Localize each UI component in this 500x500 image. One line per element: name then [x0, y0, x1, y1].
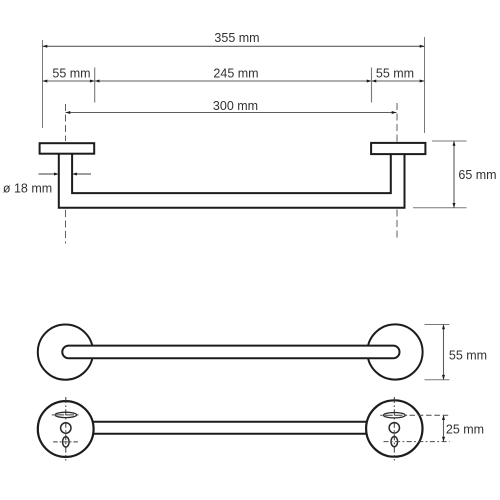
centerline right post (top view, below bar): [396, 210, 398, 241]
diameter arrow left (18 mm): [39, 173, 59, 176]
wall rosette right (front view): [367, 324, 422, 379]
wall rosette right (bottom view): [366, 400, 422, 456]
slot centerline right: [380, 414, 408, 416]
dimension line chain 55/245/55: [43, 80, 425, 83]
centerline left post (top view, above plate): [65, 104, 67, 141]
wall plate left (top view): [40, 143, 95, 154]
rail inner outline (top view): [72, 155, 391, 194]
screw oval left: [63, 437, 70, 447]
svg-text:65 mm: 65 mm: [458, 168, 496, 182]
slot lens right: [384, 413, 406, 418]
wall plate right (top view): [371, 143, 425, 154]
svg-text:245 mm: 245 mm: [213, 67, 258, 81]
svg-text:300 mm: 300 mm: [213, 99, 258, 113]
dashed extension from slot (25 mm): [410, 414, 450, 416]
slot lens left: [55, 412, 77, 417]
svg-text:ø 18 mm: ø 18 mm: [3, 182, 52, 196]
wall rosette left (front view): [38, 325, 93, 380]
bar (front view): [62, 346, 399, 359]
extension line left (overall width): [42, 40, 44, 128]
extension line bottom (65 mm): [413, 207, 467, 209]
bar top edge (bottom view): [93, 421, 367, 423]
dimension line 300 mm: [66, 111, 397, 114]
vertical centerline left rosette: [65, 397, 67, 461]
wall rosette left (bottom view): [38, 401, 94, 457]
extension line bottom (55 mm front): [425, 379, 450, 381]
svg-text:55 mm: 55 mm: [449, 349, 487, 363]
screw hole circle right: [389, 423, 399, 433]
svg-text:25 mm: 25 mm: [446, 423, 484, 437]
centerline right post (top view, above plate): [396, 103, 398, 142]
dimension line 355 mm: [43, 45, 425, 48]
extension line top (65 mm): [432, 140, 467, 142]
screw hole circle left: [61, 423, 71, 433]
dimension line 55 mm (front): [442, 325, 445, 380]
rail outer outline (top view): [59, 155, 405, 208]
bar bottom edge (bottom view): [93, 433, 367, 435]
extension line top (55 mm front): [425, 324, 450, 326]
horizontal centerline through oval left: [53, 441, 78, 443]
tick right at 245mm end: [371, 68, 373, 103]
tick left at 55mm: [94, 68, 96, 103]
centerline left post (top view, below bar): [65, 210, 67, 244]
horizontal centerline through oval right (extension for 25 mm): [384, 441, 450, 443]
slot centerline left: [52, 414, 80, 416]
svg-text:55 mm: 55 mm: [376, 67, 414, 81]
svg-text:55 mm: 55 mm: [52, 67, 90, 81]
dimension line 25 mm: [442, 415, 445, 441]
svg-text:355 mm: 355 mm: [214, 31, 259, 45]
vertical centerline right rosette: [393, 397, 395, 461]
extension line right (overall width): [424, 37, 426, 133]
diameter arrow right (18 mm): [72, 173, 91, 176]
dimension line 65 mm: [453, 141, 456, 208]
screw oval right: [391, 437, 398, 447]
